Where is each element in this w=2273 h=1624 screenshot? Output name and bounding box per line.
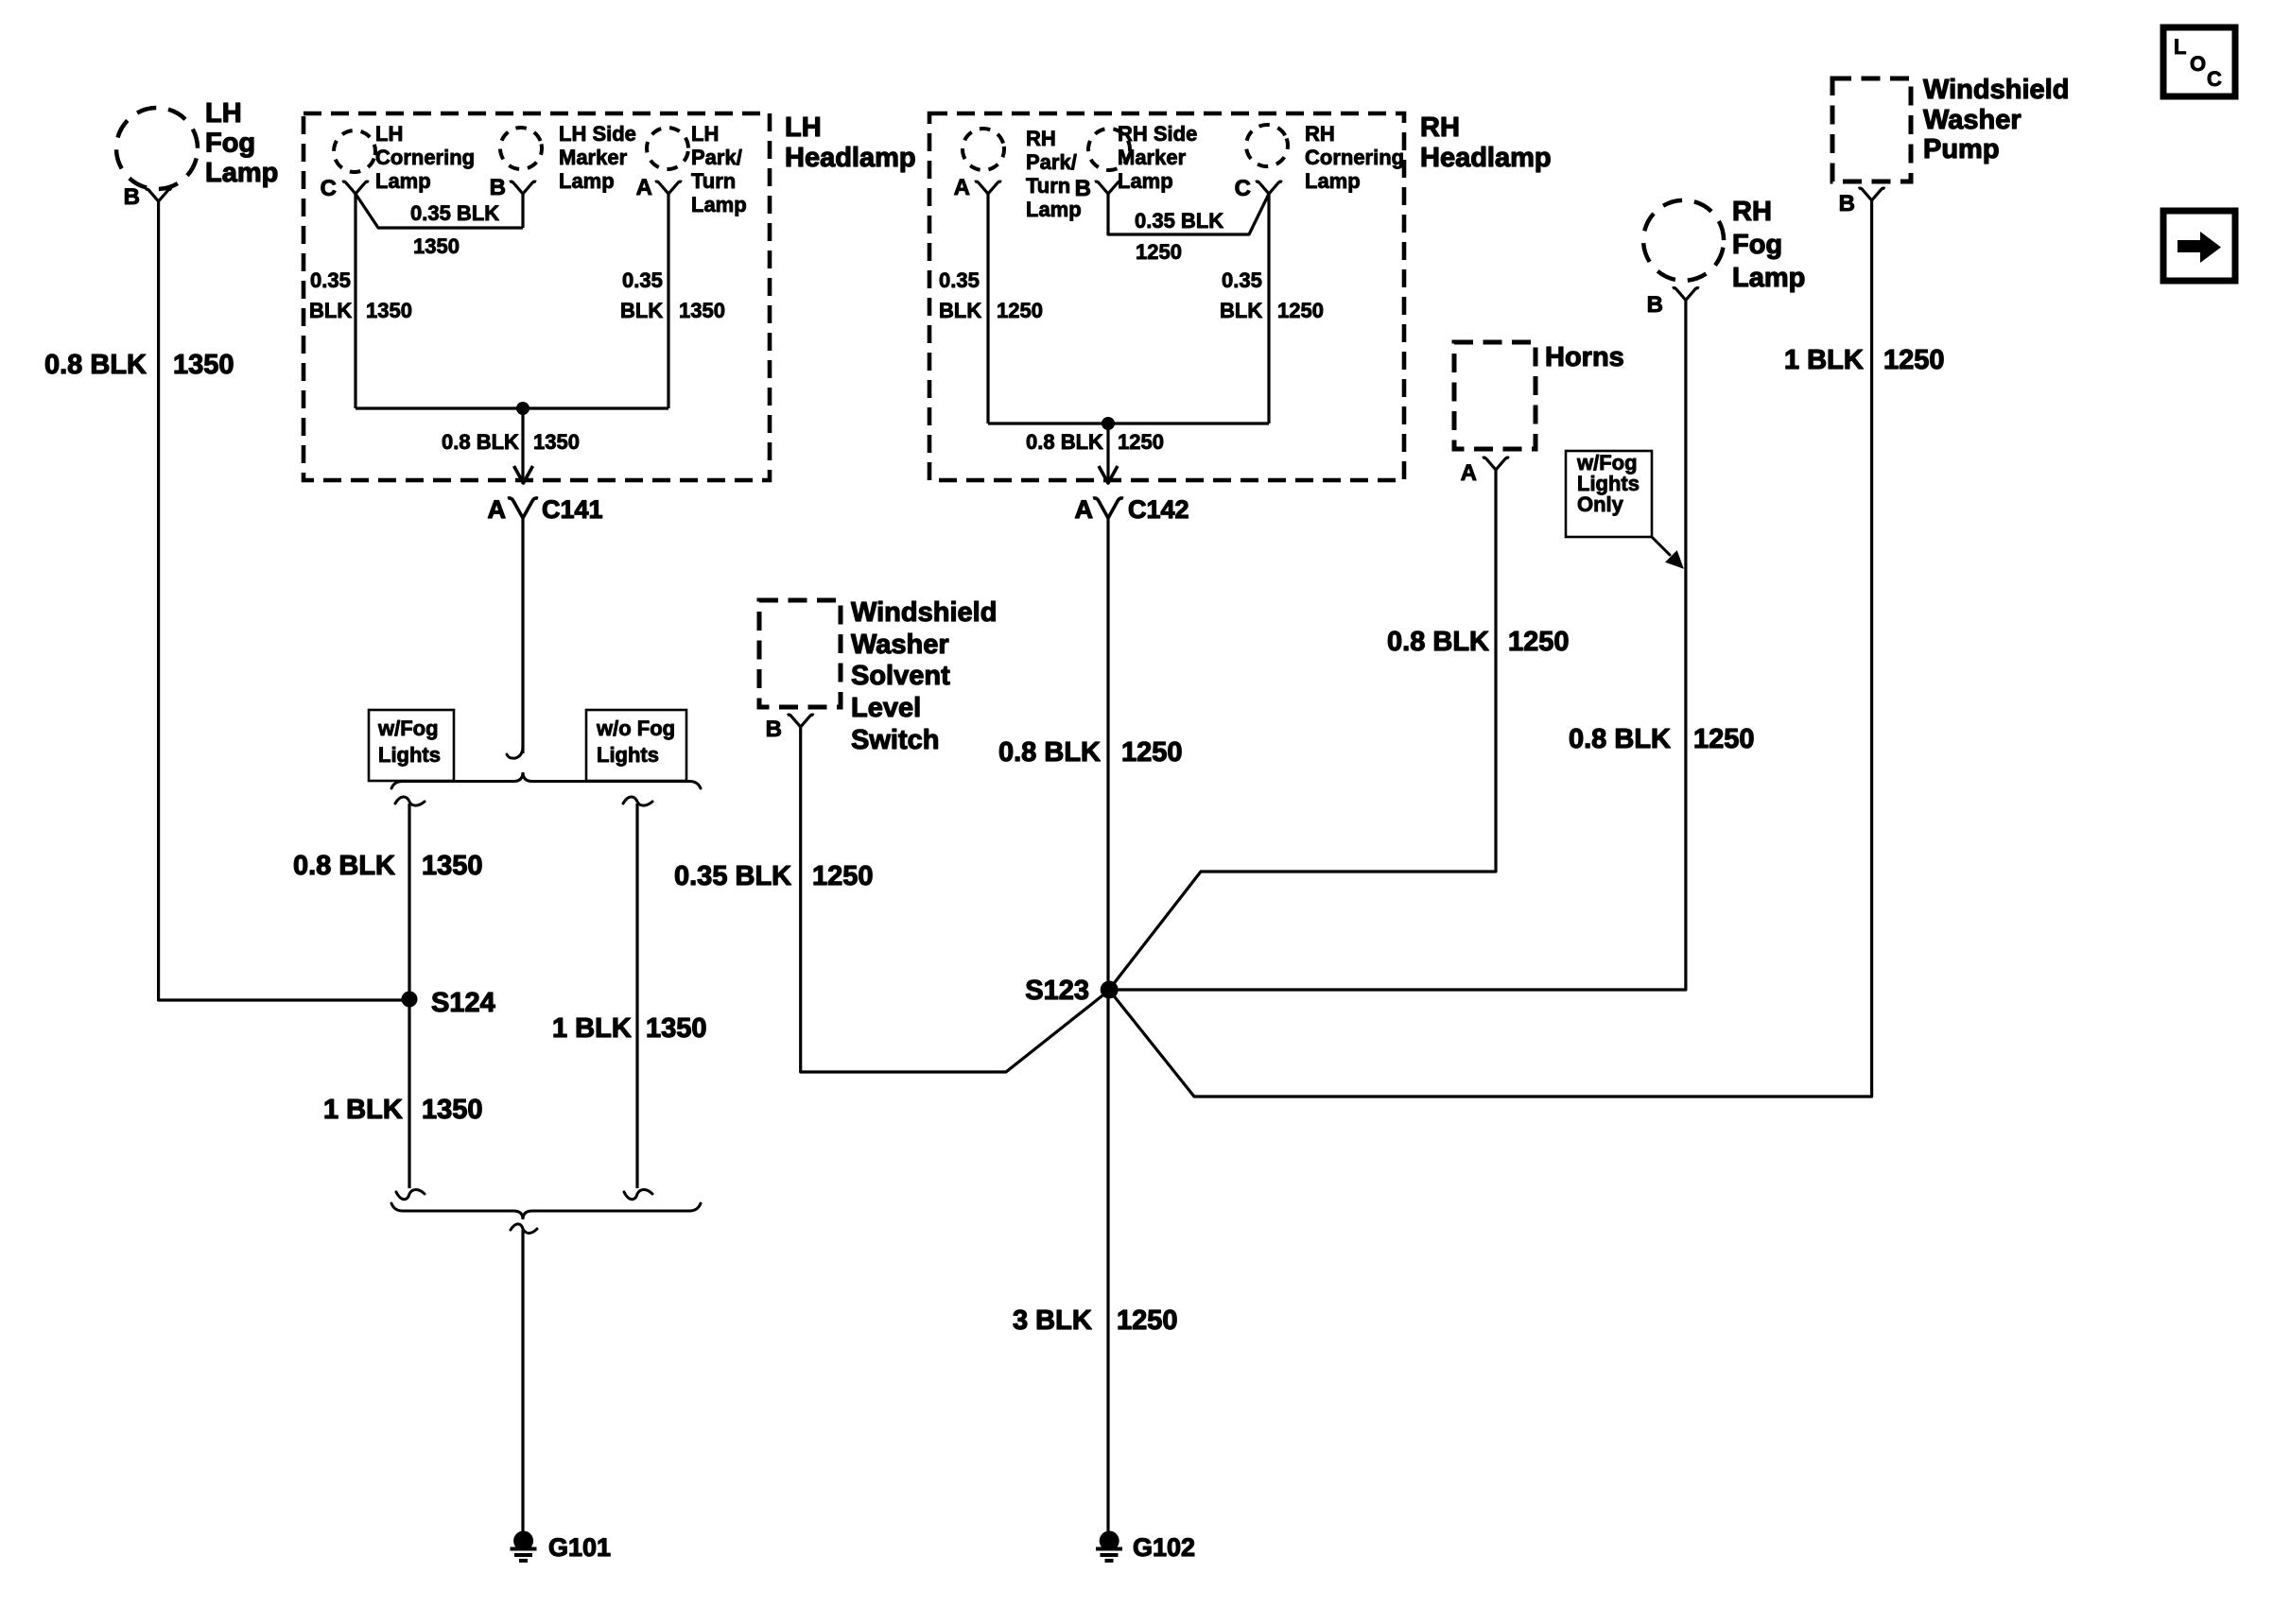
hook at top of right option wire	[623, 797, 652, 805]
junction dot (RH box)	[1102, 417, 1115, 430]
svg-text:1350: 1350	[366, 299, 412, 322]
svg-text:0.35: 0.35	[1222, 268, 1262, 292]
svg-text:1250: 1250	[1277, 299, 1324, 322]
wire: down to G101	[521, 1230, 524, 1531]
wire label 0.8 BLK | 1350 (LH bottom)	[442, 430, 580, 454]
svg-text:0.8 BLK: 0.8 BLK	[44, 350, 147, 380]
svg-text:LH Side: LH Side	[559, 122, 636, 146]
svg-text:B: B	[124, 184, 140, 210]
svg-text:0.35 BLK: 0.35 BLK	[1135, 209, 1223, 233]
svg-text:1350: 1350	[679, 299, 725, 322]
svg-text:A: A	[1461, 460, 1477, 486]
svg-text:Marker: Marker	[559, 146, 628, 169]
label LH Headlamp	[785, 112, 916, 173]
svg-text:1 BLK: 1 BLK	[323, 1095, 403, 1125]
wire: LH bottom horizontal	[356, 406, 668, 409]
svg-text:1350: 1350	[422, 1095, 483, 1125]
wire: RH fog lamp B down, left to S123	[1109, 301, 1686, 991]
LH side marker lamp (dashed circle)	[496, 124, 546, 173]
svg-text:Lamp: Lamp	[1118, 169, 1173, 193]
svg-text:Turn: Turn	[1026, 174, 1070, 198]
svg-text:C: C	[321, 176, 337, 201]
svg-text:S124: S124	[431, 988, 495, 1018]
svg-text:1250: 1250	[1136, 240, 1182, 264]
label Windshield Washer Solvent Level Switch	[851, 597, 997, 755]
wire: LH side marker B down	[521, 194, 524, 228]
svg-text:Lamp: Lamp	[375, 169, 431, 193]
svg-text:1350: 1350	[646, 1013, 707, 1044]
svg-text:A: A	[954, 175, 970, 200]
RH fog lamp (dashed circle)	[1637, 194, 1729, 286]
LH cornering lamp (dashed circle)	[328, 125, 381, 178]
RH Headlamp dashed box	[929, 113, 1404, 480]
wire label 0.35 BLK | 1250 (RH left)	[939, 268, 1043, 322]
hook at bottom of right option wire	[624, 1190, 652, 1200]
svg-text:BLK: BLK	[620, 299, 663, 322]
svg-text:3 BLK: 3 BLK	[1013, 1305, 1092, 1336]
svg-text:B: B	[766, 717, 782, 742]
hook at bottom of left option wire	[396, 1190, 425, 1200]
wire end hook	[507, 746, 523, 758]
label LH Fog Lamp	[205, 98, 278, 188]
svg-text:A: A	[636, 175, 652, 200]
svg-text:Lamp: Lamp	[691, 193, 747, 216]
svg-text:RH: RH	[1420, 112, 1460, 143]
svg-text:B: B	[1647, 292, 1663, 318]
RH fog lamp pin B	[1673, 288, 1699, 301]
RH cornering pin C	[1256, 181, 1282, 194]
wire: RH cornering C vertical	[1267, 194, 1270, 423]
svg-text:RH Side: RH Side	[1118, 122, 1197, 146]
svg-text:Turn: Turn	[691, 169, 736, 193]
svg-text:Lamp: Lamp	[1305, 169, 1361, 193]
svg-text:LH: LH	[205, 98, 242, 129]
svg-text:1 BLK: 1 BLK	[1784, 345, 1864, 375]
svg-text:Horns: Horns	[1545, 342, 1624, 372]
svg-text:1250: 1250	[1508, 627, 1570, 657]
splice S123	[1101, 981, 1119, 999]
RH side marker pin B	[1095, 181, 1121, 194]
svg-text:1350: 1350	[533, 430, 580, 454]
svg-text:C: C	[1235, 176, 1251, 201]
svg-text:Washer: Washer	[851, 630, 949, 660]
LH fog lamp (dashed circle)	[108, 99, 206, 198]
svg-text:Pump: Pump	[1923, 134, 2000, 164]
svg-text:RH: RH	[1305, 122, 1335, 146]
wire: LH cornering C vertical	[354, 194, 356, 408]
RH side marker lamp (dashed circle)	[1084, 124, 1134, 174]
wire: right option (w/o Fog) vertical	[635, 803, 638, 1188]
svg-text:LH: LH	[691, 122, 719, 146]
label LH Side Marker Lamp	[559, 122, 636, 193]
svg-text:1250: 1250	[1117, 1305, 1178, 1336]
svg-text:0.8 BLK: 0.8 BLK	[1569, 724, 1671, 754]
svg-text:1250: 1250	[812, 861, 874, 891]
svg-text:Park/: Park/	[1026, 150, 1077, 174]
label Windshield Washer Pump	[1923, 75, 2069, 164]
wire: RH bottom horizontal	[988, 422, 1269, 424]
wire label 0.8 BLK | 1250 (horns)	[1387, 627, 1570, 657]
wire: horns A down, left, diagonal to S123	[1112, 470, 1496, 986]
wire label 1 BLK | 1350 (left option lower)	[323, 1095, 483, 1125]
svg-text:G102: G102	[1133, 1533, 1195, 1562]
wire label 1 BLK | 1250 (washer pump)	[1784, 345, 1945, 375]
svg-text:0.35 BLK: 0.35 BLK	[410, 201, 499, 225]
svg-text:Washer: Washer	[1923, 105, 2021, 135]
svg-text:L: L	[2174, 35, 2186, 59]
wire: LH cornering C diagonal to horizontal joining B	[356, 194, 523, 228]
svg-text:RH: RH	[1026, 127, 1056, 150]
svg-text:1250: 1250	[997, 299, 1043, 322]
wire start hook (to G101)	[511, 1224, 537, 1234]
svg-text:RH: RH	[1732, 197, 1772, 227]
svg-text:Lamp: Lamp	[559, 169, 615, 193]
wire label 0.35 BLK | 1350 (right)	[620, 268, 725, 322]
wire label 1 BLK | 1350 (right option)	[552, 1013, 707, 1044]
label RH Side Marker Lamp	[1118, 122, 1197, 193]
svg-text:Level: Level	[851, 693, 921, 723]
svg-text:0.35: 0.35	[939, 268, 980, 292]
svg-text:BLK: BLK	[1220, 299, 1262, 322]
svg-text:0.8 BLK: 0.8 BLK	[442, 430, 519, 454]
svg-text:C142: C142	[1128, 495, 1189, 524]
hook at top of left option wire	[395, 797, 425, 805]
svg-text:LH: LH	[785, 112, 822, 143]
svg-text:BLK: BLK	[309, 299, 352, 322]
svg-text:0.35: 0.35	[310, 268, 351, 292]
svg-text:0.8 BLK: 0.8 BLK	[293, 851, 395, 881]
label LH Park/Turn Lamp	[691, 122, 747, 216]
wire label 3 BLK | 1250	[1013, 1305, 1178, 1336]
svg-text:Lights: Lights	[378, 743, 441, 767]
svg-text:A: A	[1075, 495, 1094, 524]
svg-text:BLK: BLK	[939, 299, 981, 322]
wire: C141 down to split	[521, 518, 524, 753]
LH cornering lamp pin C	[342, 181, 369, 194]
wire: C142 down through S123 to G102	[1106, 518, 1109, 1531]
svg-text:Fog: Fog	[205, 129, 255, 159]
wire label 0.35 BLK / 1350 (top)	[410, 201, 499, 258]
wire label 0.35 BLK / 1250 (RH top)	[1135, 209, 1223, 264]
svg-text:S123: S123	[1025, 976, 1089, 1006]
wire label 0.8 BLK | 1350 (left option upper)	[293, 851, 483, 881]
wire: LH park/turn A vertical	[667, 194, 669, 408]
svg-text:1250: 1250	[1693, 724, 1755, 754]
svg-text:Headlamp: Headlamp	[1420, 143, 1552, 173]
Windshield Washer Pump dashed box	[1832, 78, 1911, 181]
svg-text:Windshield: Windshield	[851, 597, 997, 628]
svg-text:Park/: Park/	[691, 146, 742, 169]
LH fog lamp pin B connector	[146, 189, 172, 201]
svg-text:Only: Only	[1577, 492, 1624, 516]
junction dot (LH box)	[516, 402, 529, 415]
LH side marker pin B	[510, 181, 536, 194]
svg-text:C: C	[2207, 67, 2222, 91]
svg-text:C141: C141	[542, 495, 603, 524]
svg-text:0.8 BLK: 0.8 BLK	[1387, 627, 1489, 657]
RH park/turn pin A	[975, 181, 1001, 194]
connector C142	[1093, 498, 1123, 518]
svg-text:Fog: Fog	[1732, 230, 1782, 260]
svg-text:Switch: Switch	[851, 725, 939, 755]
svg-text:0.35: 0.35	[622, 268, 663, 292]
wire: washer pump B down, left, diagonal to S123	[1112, 200, 1872, 1097]
label RH Park/Turn Lamp	[1026, 127, 1082, 221]
label RH Fog Lamp	[1732, 197, 1805, 293]
wire label 0.8 BLK | 1250 (C142 wire)	[998, 737, 1183, 768]
horns pin A	[1483, 458, 1509, 470]
wire label 0.35 BLK | 1250 (solvent)	[674, 861, 874, 891]
svg-text:0.8 BLK: 0.8 BLK	[998, 737, 1101, 768]
LH park/turn pin A	[655, 181, 682, 194]
svg-text:Marker: Marker	[1118, 146, 1187, 169]
svg-text:B: B	[1839, 191, 1855, 216]
Horns dashed box	[1454, 342, 1536, 449]
connector C141	[508, 498, 538, 518]
svg-text:Cornering: Cornering	[375, 146, 475, 169]
arrow legend box	[2163, 211, 2235, 281]
svg-text:Headlamp: Headlamp	[785, 143, 916, 173]
Windshield Washer Solvent Level Switch dashed box	[759, 600, 841, 707]
svg-text:O: O	[2190, 52, 2206, 76]
svg-text:1 BLK: 1 BLK	[552, 1013, 632, 1044]
w/o Fog Lights option box	[586, 710, 686, 781]
svg-text:1350: 1350	[173, 350, 234, 380]
svg-text:Cornering: Cornering	[1305, 146, 1404, 169]
wire: left option (w/Fog) vertical	[408, 803, 410, 1188]
wire: LH fog lamp B down and right to S124	[159, 201, 406, 1000]
wire: RH park/turn A vertical	[986, 194, 989, 423]
wire label 0.8 BLK | 1250 (RH bottom)	[1026, 430, 1164, 454]
callout arrow to RH fog wire	[1652, 537, 1683, 568]
wire: RH center down with arrow	[1106, 423, 1109, 484]
svg-text:Windshield: Windshield	[1923, 75, 2069, 105]
LH park/turn lamp (dashed circle)	[644, 125, 691, 172]
svg-text:Lamp: Lamp	[1732, 263, 1805, 293]
svg-text:B: B	[1075, 176, 1091, 201]
ground G102	[1096, 1531, 1122, 1562]
svg-text:w/Fog: w/Fog	[377, 717, 439, 740]
wire: LH center down with arrow	[521, 408, 524, 484]
svg-text:1250: 1250	[1121, 737, 1183, 768]
svg-text:1250: 1250	[1118, 430, 1164, 454]
svg-text:w/o Fog: w/o Fog	[596, 717, 675, 740]
RH cornering lamp (dashed circle)	[1241, 119, 1293, 172]
arrowhead at LH box exit	[514, 466, 533, 483]
svg-text:Lights: Lights	[597, 743, 659, 767]
svg-text:1350: 1350	[413, 234, 460, 258]
ground G101	[511, 1531, 537, 1562]
RH park/turn lamp (dashed circle)	[960, 126, 1007, 173]
wire label 0.8 BLK | 1250 (RH fog)	[1569, 724, 1755, 754]
svg-text:LH: LH	[375, 122, 403, 146]
svg-text:Lamp: Lamp	[1026, 198, 1082, 221]
svg-text:0.8 BLK: 0.8 BLK	[1026, 430, 1103, 454]
svg-text:G101: G101	[548, 1533, 611, 1562]
LH Headlamp dashed box	[304, 113, 770, 480]
label RH Headlamp	[1420, 112, 1552, 173]
washer pump pin B	[1859, 188, 1885, 200]
svg-text:0.35 BLK: 0.35 BLK	[674, 861, 791, 891]
svg-text:1250: 1250	[1883, 345, 1945, 375]
svg-text:B: B	[490, 175, 506, 200]
LOC legend box	[2163, 27, 2235, 96]
svg-text:Lamp: Lamp	[205, 158, 278, 188]
wire label 0.35 BLK | 1350 (left)	[309, 268, 412, 322]
solvent switch pin B	[788, 715, 814, 727]
wire label 0.35 BLK | 1250 (RH right)	[1220, 268, 1324, 322]
svg-text:A: A	[488, 495, 507, 524]
label LH Cornering Lamp	[375, 122, 475, 193]
brace (bottom, options merge)	[391, 1203, 701, 1219]
svg-text:1350: 1350	[422, 851, 483, 881]
svg-text:Solvent: Solvent	[851, 661, 950, 691]
splice S124	[402, 992, 418, 1008]
w/Fog Lights Only callout box	[1566, 451, 1652, 537]
wire: solvent switch B down, right, diagonal to S123	[801, 727, 1106, 1072]
wire label 0.8 BLK 1350	[44, 350, 234, 380]
w/Fog Lights option box	[369, 710, 454, 781]
wire: RH side marker B down, horizontal, diagonal to C	[1108, 194, 1269, 234]
arrowhead at RH box exit	[1099, 466, 1118, 483]
brace (top, options split)	[391, 772, 701, 788]
label RH Cornering Lamp	[1305, 122, 1404, 193]
